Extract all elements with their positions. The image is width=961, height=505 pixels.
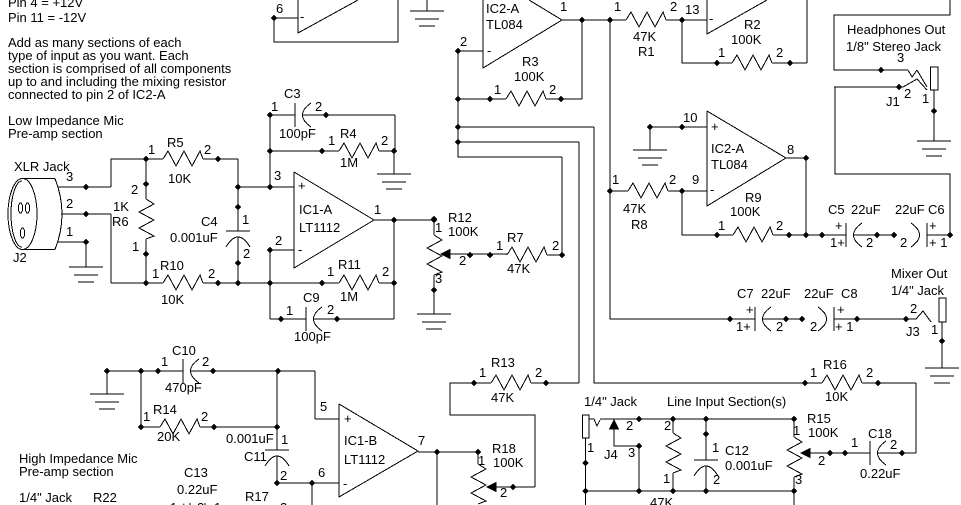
svg-text:0.22uF: 0.22uF — [860, 466, 901, 481]
svg-text:J2: J2 — [13, 250, 27, 265]
svg-text:1: 1 — [374, 202, 381, 217]
svg-text:C12: C12 — [725, 443, 749, 458]
svg-text:J1: J1 — [886, 94, 900, 109]
svg-text:TL084: TL084 — [486, 17, 523, 32]
svg-text:+: + — [344, 411, 352, 426]
svg-text:1: 1 — [271, 99, 278, 114]
svg-text:1/4" Jack: 1/4" Jack — [19, 490, 73, 505]
svg-text:2: 2 — [904, 86, 911, 101]
svg-text:0.001uF: 0.001uF — [725, 458, 773, 473]
svg-text:1: 1 — [435, 220, 442, 235]
svg-text:R16: R16 — [823, 357, 847, 372]
resistor R11 1M (feedback) — [319, 257, 397, 304]
svg-text:1: 1 — [328, 133, 335, 148]
svg-text:C5: C5 — [828, 202, 845, 217]
resistor R5 10K — [143, 135, 238, 186]
svg-text:C4: C4 — [201, 214, 218, 229]
headphones out label — [846, 22, 946, 54]
capacitor C10 470pF — [104, 343, 339, 419]
svg-text:5: 5 — [320, 399, 327, 414]
svg-text:R7: R7 — [507, 230, 524, 245]
svg-text:R14: R14 — [153, 402, 177, 417]
capacitor C11 0.001uF (vertical) — [226, 371, 289, 486]
svg-text:+: + — [835, 218, 843, 233]
svg-text:22uF: 22uF — [761, 286, 791, 301]
svg-text:2: 2 — [208, 266, 215, 281]
op-amp IC2-A (TL084, headphone R, pins 10/9/8) — [683, 110, 794, 206]
svg-text:2: 2 — [500, 485, 507, 500]
resistor R4 1M — [267, 115, 397, 187]
svg-text:C10: C10 — [172, 343, 196, 358]
op-amp IC1-A LT1112 — [294, 172, 381, 268]
op-amp U? (top-left, cut off at image top, pin 6 input) — [271, 0, 398, 42]
svg-text:2: 2 — [664, 418, 671, 433]
svg-text:C11: C11 — [244, 449, 267, 464]
svg-text:10K: 10K — [825, 389, 848, 404]
op-amp U? (headphone L, pin 13 input, cut off at top) — [707, 0, 767, 34]
svg-text:1: 1 — [478, 453, 485, 468]
wire: IC2-A pin8 output — [786, 155, 809, 235]
svg-text:1: 1 — [612, 172, 619, 187]
svg-text:2: 2 — [900, 235, 907, 250]
svg-text:IC2-A: IC2-A — [486, 1, 520, 16]
ground (XLR pin1) — [69, 267, 103, 282]
svg-text:2: 2 — [776, 319, 783, 334]
svg-text:C7: C7 — [737, 286, 754, 301]
svg-text:Pre-amp section: Pre-amp section — [19, 464, 114, 479]
svg-text:R10: R10 — [160, 258, 184, 273]
svg-text:22uF: 22uF — [895, 202, 925, 217]
resistor R10 10K — [111, 258, 339, 307]
potentiometer R12 100K — [427, 210, 507, 314]
svg-text:C13: C13 — [184, 465, 208, 480]
svg-text:470pF: 470pF — [165, 380, 202, 395]
ground (R4/C3) — [377, 151, 411, 189]
ground (top, near x=427) — [410, 0, 444, 26]
svg-text:22uF: 22uF — [804, 286, 834, 301]
svg-text:2: 2 — [535, 365, 542, 380]
svg-text:100K: 100K — [730, 204, 761, 219]
svg-text:1: 1 — [614, 0, 621, 14]
svg-text:10K: 10K — [168, 171, 191, 186]
svg-text:2: 2 — [243, 246, 250, 261]
svg-text:+: + — [929, 218, 937, 233]
svg-text:R5: R5 — [167, 135, 184, 150]
svg-text:2: 2 — [197, 500, 204, 505]
svg-text:10: 10 — [683, 110, 697, 125]
svg-text:2: 2 — [866, 365, 873, 380]
resistor R13 47K (mixing resistor, high-Z mic) — [479, 355, 579, 405]
wire: non-inverting input row (pin 3) — [238, 168, 294, 190]
svg-text:1: 1 — [479, 365, 486, 380]
svg-text:2: 2 — [202, 354, 209, 369]
svg-text:20K: 20K — [157, 429, 180, 444]
svg-text:9: 9 — [692, 172, 699, 187]
wire: XLR pin 2 — [61, 211, 111, 283]
svg-text:1: 1 — [281, 432, 288, 447]
svg-text:13: 13 — [685, 2, 699, 17]
wire: line input top rail — [639, 416, 797, 422]
svg-text:1: 1 — [148, 142, 155, 157]
capacitor C5 22uF + capacitor C6 22uF (back to back) — [828, 202, 953, 250]
svg-text:3: 3 — [435, 271, 442, 286]
capacitor C3 100pF — [267, 86, 395, 151]
svg-text:C9: C9 — [303, 290, 320, 305]
XLR jack J2 — [8, 159, 73, 265]
potentiometer R15 100K — [787, 411, 870, 505]
wire: IC1-A output — [374, 217, 437, 223]
capacitor C4 0.001uF (vertical) — [170, 159, 250, 283]
svg-text:1: 1 — [810, 365, 817, 380]
svg-text:2: 2 — [890, 437, 897, 452]
svg-text:1: 1 — [560, 0, 567, 14]
svg-text:R3: R3 — [522, 54, 539, 69]
svg-text:1/4" Jack: 1/4" Jack — [584, 394, 638, 409]
svg-text:1: 1 — [931, 322, 938, 337]
svg-text:+ 1: + 1 — [929, 235, 947, 250]
svg-text:1: 1 — [161, 354, 168, 369]
svg-text:R12: R12 — [448, 210, 472, 225]
svg-text:1: 1 — [587, 440, 594, 455]
svg-text:R2: R2 — [744, 17, 761, 32]
capacitor C9 100pF (feedback) — [270, 220, 394, 344]
svg-text:2: 2 — [669, 172, 676, 187]
svg-text:LT1112: LT1112 — [344, 452, 385, 467]
high impedance labels — [19, 451, 138, 505]
svg-text:2: 2 — [459, 253, 466, 268]
svg-text:C18: C18 — [868, 426, 892, 441]
svg-text:1: 1 — [494, 82, 501, 97]
resistor R3 100K (feedback of IC2-A) — [458, 20, 582, 106]
wire: bus riser to line input (x=594) — [594, 127, 805, 383]
resistor R2 100K (feedback, headphone op-amp) — [682, 0, 807, 70]
svg-text:2: 2 — [776, 45, 783, 60]
svg-text:R1: R1 — [638, 44, 655, 59]
wire: XLR pin 1 to ground — [58, 239, 89, 267]
svg-text:2: 2 — [460, 34, 467, 49]
svg-text:1: 1 — [851, 435, 858, 450]
svg-text:1: 1 — [712, 440, 719, 455]
svg-text:1: 1 — [793, 423, 800, 438]
svg-text:100K: 100K — [448, 224, 479, 239]
svg-text:47K: 47K — [623, 201, 646, 216]
svg-text:6: 6 — [318, 465, 325, 480]
svg-text:1: 1 — [496, 238, 503, 253]
svg-text:XLR Jack: XLR Jack — [14, 159, 70, 174]
resistor R16 10K (mixing resistor, line input) — [802, 357, 916, 453]
svg-text:Line Input Section(s): Line Input Section(s) — [667, 394, 786, 409]
svg-text:2: 2 — [381, 133, 388, 148]
wire: bus riser to R13 (x=579) — [578, 142, 580, 383]
svg-text:J3: J3 — [906, 324, 920, 339]
svg-text:2: 2 — [201, 409, 208, 424]
resistor R7 47K (mixing resistor, low-Z mic) — [496, 157, 565, 276]
svg-text:IC2-A: IC2-A — [711, 141, 745, 156]
svg-text:R18: R18 — [492, 441, 516, 456]
ground (J1) — [917, 141, 951, 156]
svg-text:1: 1 — [327, 264, 334, 279]
svg-text:2: 2 — [776, 218, 783, 233]
svg-text:1: 1 — [286, 303, 293, 318]
svg-text:0.001uF: 0.001uF — [170, 230, 218, 245]
svg-text:+: + — [711, 119, 719, 134]
svg-text:IC1-B: IC1-B — [344, 433, 377, 448]
capacitor C18 0.22uF — [851, 426, 916, 481]
svg-text:1: 1 — [170, 500, 177, 505]
svg-text:-: - — [298, 242, 302, 257]
wire: IC1-B output — [418, 449, 481, 505]
svg-text:3: 3 — [628, 445, 635, 460]
svg-text:Mixer Out: Mixer Out — [891, 266, 948, 281]
svg-text:100K: 100K — [514, 69, 545, 84]
svg-text:Pin 4 = +12V: Pin 4 = +12V — [8, 0, 83, 10]
svg-text:1: 1 — [242, 212, 249, 227]
svg-text:2: 2 — [131, 182, 138, 197]
svg-text:R11: R11 — [338, 257, 361, 272]
svg-text:1: 1 — [922, 91, 929, 106]
svg-text:2: 2 — [910, 301, 917, 316]
svg-text:2: 2 — [552, 238, 559, 253]
svg-text:Headphones Out: Headphones Out — [847, 22, 946, 37]
svg-text:-: - — [709, 11, 713, 26]
C13 / R17 bottom fragments (cut off) — [170, 465, 287, 505]
ground (C10 / high-Z input) — [90, 371, 124, 409]
wire: R18 wiper to R13 — [450, 380, 535, 487]
wire: mixer output bus x=610 — [610, 20, 755, 322]
svg-text:2: 2 — [280, 500, 287, 505]
svg-text:1: 1 — [132, 239, 139, 254]
svg-text:0.22uF: 0.22uF — [177, 482, 218, 497]
svg-text:R22: R22 — [93, 490, 117, 505]
svg-text:-: - — [487, 43, 491, 58]
capacitor C7 22uF + capacitor C8 22uF (back to back) — [736, 286, 906, 334]
line input label — [584, 394, 786, 409]
svg-text:1: 1 — [143, 409, 150, 424]
wire: inverting-input bus column x=458 — [455, 48, 594, 157]
svg-text:3: 3 — [795, 472, 802, 487]
svg-text:LT1112: LT1112 — [299, 220, 340, 235]
svg-text:-: - — [300, 9, 304, 24]
mixer out label — [891, 266, 948, 298]
svg-text:R8: R8 — [631, 217, 648, 232]
svg-text:1: 1 — [663, 471, 670, 486]
svg-text:-: - — [710, 182, 714, 197]
svg-text:8: 8 — [787, 142, 794, 157]
svg-text:1/4" Jack: 1/4" Jack — [891, 283, 945, 298]
svg-text:3: 3 — [897, 50, 904, 65]
svg-text:2: 2 — [866, 235, 873, 250]
resistor R6 1K (vertical) — [112, 159, 154, 283]
svg-text:R15: R15 — [807, 411, 831, 426]
ground (J3) — [925, 368, 959, 383]
wire: headphone jack ring feed — [835, 87, 950, 235]
wire: IC1-B pin 6 row — [277, 399, 339, 505]
svg-text:1M: 1M — [340, 289, 358, 304]
svg-text:2: 2 — [670, 0, 677, 14]
svg-text:2: 2 — [275, 233, 282, 248]
svg-text:+: + — [837, 302, 845, 317]
ground (R12) — [417, 314, 451, 329]
svg-text:1: 1 — [718, 45, 725, 60]
svg-text:100K: 100K — [493, 455, 524, 470]
svg-text:1K: 1K — [113, 199, 129, 214]
svg-text:R17: R17 — [245, 489, 269, 504]
svg-text:R9: R9 — [745, 190, 762, 205]
svg-text:2: 2 — [626, 418, 633, 433]
svg-text:2: 2 — [810, 319, 817, 334]
svg-text:R13: R13 — [491, 355, 515, 370]
svg-text:47K: 47K — [507, 261, 530, 276]
svg-text:1+: 1+ — [830, 235, 845, 250]
svg-text:1: 1 — [66, 224, 73, 239]
svg-text:10K: 10K — [161, 292, 184, 307]
svg-text:C3: C3 — [284, 86, 301, 101]
wire: pin 10 to ground — [633, 124, 707, 165]
svg-text:-: - — [343, 476, 347, 491]
svg-text:100pF: 100pF — [294, 329, 331, 344]
svg-text:+ 1: + 1 — [835, 319, 853, 334]
resistor R14 20K — [138, 371, 280, 444]
svg-text:R4: R4 — [340, 126, 357, 141]
svg-text:2: 2 — [549, 82, 556, 97]
svg-text:1/8" Stereo Jack: 1/8" Stereo Jack — [846, 39, 941, 54]
svg-text:TL084: TL084 — [711, 157, 748, 172]
svg-text:2: 2 — [204, 142, 211, 157]
svg-text:2: 2 — [315, 99, 322, 114]
jack J1 1/8 stereo, tip/ring contacts — [834, 0, 950, 141]
wire: line input ground rail — [586, 488, 795, 494]
svg-text:3: 3 — [66, 169, 73, 184]
capacitor C12 0.001uF (vertical) — [694, 419, 773, 491]
svg-text:47K: 47K — [491, 390, 514, 405]
jack J3 1/4 mixer out — [903, 298, 946, 368]
notes text block — [8, 0, 232, 141]
potentiometer R18 100K — [471, 441, 535, 504]
op-amp IC2-A (TL084, mixing stage, pins 2/1) — [458, 0, 567, 68]
svg-text:connected to pin 2 of IC2-A: connected to pin 2 of IC2-A — [8, 87, 166, 102]
svg-text:Pin 11 = -12V: Pin 11 = -12V — [8, 10, 87, 25]
op-amp IC1-B LT1112 — [339, 404, 425, 497]
svg-text:47K: 47K — [650, 495, 673, 505]
svg-text:C6: C6 — [928, 202, 945, 217]
svg-text:6: 6 — [276, 1, 283, 16]
svg-text:7: 7 — [418, 433, 425, 448]
svg-text:J4: J4 — [604, 447, 618, 462]
svg-text:2: 2 — [818, 453, 825, 468]
svg-text:2: 2 — [713, 472, 720, 487]
wire: XLR pin 3 — [58, 159, 146, 190]
svg-text:1+: 1+ — [736, 319, 751, 334]
resistor R9 100K (feedback) — [682, 190, 846, 242]
svg-text:+: + — [746, 302, 754, 317]
svg-text:3: 3 — [274, 168, 281, 183]
resistor R8 47K — [607, 172, 707, 232]
svg-text:2: 2 — [382, 264, 389, 279]
svg-text:100pF: 100pF — [279, 126, 316, 141]
svg-text:1: 1 — [152, 266, 159, 281]
resistor R1 47K — [614, 0, 707, 59]
svg-text:22uF: 22uF — [851, 202, 881, 217]
svg-text:47K: 47K — [633, 29, 656, 44]
svg-text:Pre-amp section: Pre-amp section — [8, 126, 103, 141]
svg-text:2: 2 — [327, 302, 334, 317]
jack J4 1/4 line in — [583, 415, 643, 505]
svg-text:1: 1 — [214, 500, 221, 505]
svg-text:2: 2 — [66, 196, 73, 211]
resistor 47K (line input load) — [650, 418, 681, 505]
svg-text:1M: 1M — [340, 155, 358, 170]
svg-text:IC1-A: IC1-A — [299, 202, 333, 217]
svg-text:1: 1 — [718, 218, 725, 233]
wire: IC2-A output node — [562, 17, 626, 23]
svg-text:+: + — [298, 178, 306, 193]
svg-text:2: 2 — [280, 468, 287, 483]
wire: inverting input row (pin 2) — [267, 233, 294, 319]
svg-text:100K: 100K — [808, 425, 839, 440]
svg-text:0.001uF: 0.001uF — [226, 431, 274, 446]
svg-text:R6: R6 — [112, 214, 129, 229]
svg-text:+: + — [180, 499, 188, 505]
svg-text:C8: C8 — [841, 286, 858, 301]
svg-text:100K: 100K — [731, 32, 762, 47]
